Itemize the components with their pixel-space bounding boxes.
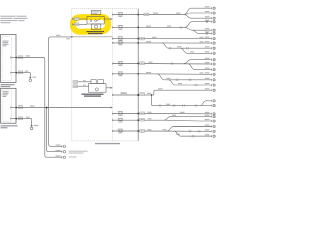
fuse F8 rating label [119, 114, 123, 117]
K1 contact circle 1 [90, 20, 92, 22]
junction fuse F8 at connector face [137, 113, 139, 115]
F10 label above 2 [163, 129, 167, 130]
drop x151.5 y95->105.6 [152, 95, 201, 106]
connector label on K1 upper stub [74, 18, 79, 21]
underhood fuse block dashed bottom edge [72, 140, 138, 142]
cascade drop to y85.0 [169, 80, 212, 85]
terminal label y8.2 [205, 6, 210, 7]
fuse F4 symbol [118, 42, 123, 43]
F3 wire label 2 [200, 37, 204, 38]
inline connector 2 on lower chain [173, 105, 175, 107]
K2 name line 1 [82, 94, 104, 95]
riser x153.8 y95->90.2 [154, 90, 212, 95]
K1 right pin arrow [110, 18, 112, 20]
F8 wire label [180, 112, 185, 113]
wire D label [26, 117, 30, 118]
connector label on K1 lower stub [74, 23, 79, 26]
K1 coil circle [94, 25, 97, 28]
inline connector on F2 wire [180, 26, 182, 28]
F2 wire label 2 [167, 26, 171, 27]
vertical V3 x46.6 [46, 108, 48, 150]
K2 feed wire 2 [78, 85, 89, 87]
U1 label line 1 [1, 84, 15, 85]
label above riser line y90.2 [158, 88, 163, 89]
pin into fuse block internal edge y107.5 [110, 107, 112, 109]
terminal T y105.6 [211, 104, 215, 106]
branch up to terminal y100.8 [200, 101, 211, 106]
fuse F1 name label [118, 11, 123, 14]
connector label on K2 output row [121, 92, 126, 95]
K2 sub-box B [98, 80, 104, 84]
pin dot into fuse block left edge y36.9 [71, 36, 73, 38]
F2 wire label [146, 26, 151, 27]
extension of y126.4 branch [174, 125, 212, 127]
terminal label y121.0 [205, 119, 210, 120]
U2 pin B stub [12, 118, 17, 120]
inline connector 2 on F10 [198, 130, 200, 132]
K1 top sub-box text 2 [92, 12, 97, 15]
connector label on F1 wire [144, 13, 149, 16]
terminal T y43.1 [211, 42, 215, 44]
y85 line label [178, 83, 182, 84]
F4 wire label [146, 41, 151, 42]
U2 pin A [10, 107, 12, 109]
fuse F3 symbol [118, 38, 123, 39]
fuse F6 symbol [118, 73, 123, 74]
fuse F1 left pin [112, 14, 114, 16]
inline connector on y136.2 branch [192, 135, 194, 137]
K1 contact circle 2 [95, 20, 97, 22]
K2 output pin arrow [110, 87, 112, 89]
fuse F2 symbol [118, 27, 123, 28]
connector label into K2 feed 2 [73, 85, 78, 88]
note text line 1a [1, 16, 16, 17]
terminal T y116.6 [211, 115, 215, 117]
module U1 inner dashed boundary [2, 37, 12, 81]
F5 wire label [149, 62, 153, 63]
F8 wire label 1 [148, 112, 152, 113]
terminal T y79.8 [211, 79, 215, 81]
terminal label y43.1 [205, 41, 210, 42]
wire F7 out y95 [138, 94, 154, 96]
ring terminal E1 [62, 145, 66, 147]
wire F3 out y38.6 [138, 38, 212, 40]
relay K1 top sub-box [91, 11, 101, 15]
F10 label below [176, 134, 180, 135]
inline connector circle on y33.4 branch [206, 33, 208, 35]
extension of y136.2 branch [181, 135, 212, 137]
U2 internal text line 4 [3, 95, 7, 98]
ring terminal E2 [62, 151, 66, 153]
note text line 2a [1, 18, 13, 19]
wire F10 out y131 [138, 130, 212, 132]
inline connector 1 on F10 [189, 130, 191, 132]
fuse F1 symbol [118, 14, 123, 15]
fuse F10 left pin [112, 130, 114, 132]
F10 label above 1 [148, 129, 152, 130]
terminal T y53.3 [211, 52, 215, 54]
fuse F5 rating label [119, 64, 123, 67]
terminal T y136.2 [211, 135, 215, 137]
terminal label y18.2 [205, 16, 210, 17]
F7 wire label after bus [147, 93, 151, 94]
fuse F4 row wire y42.9 [112, 42, 138, 44]
branch straight terminal y105.6 [200, 105, 211, 107]
F1 wire label 2 [176, 13, 181, 14]
branch to terminal y21.7 [185, 22, 212, 28]
wire C label 1 [30, 105, 35, 106]
underhood fuse block dashed left edge [71, 9, 73, 141]
fuse F4 left pin [112, 42, 114, 44]
U2 internal text line 3 [3, 93, 8, 96]
fuse F6 rating label [119, 74, 123, 77]
fuse F5 row wire y63.5 [112, 63, 138, 65]
K2 output wire [106, 87, 112, 89]
fuse F10 rating label [119, 131, 123, 134]
terminal label y136.2 [205, 134, 210, 135]
terminal T y38.6 [211, 37, 215, 39]
junction at U1 pin A [15, 57, 17, 59]
wire E corner at x48.6 y36.9 [49, 37, 72, 144]
fuse F8 row wire y113.5 [112, 113, 138, 115]
inline connector 1 on lower chain [159, 105, 161, 107]
E3 wire label [56, 155, 61, 156]
fuse F2 left pin [112, 27, 114, 29]
K2 coil circle [95, 88, 98, 91]
U1 internal text line 2 [3, 41, 9, 44]
fuse F10 name label [118, 128, 123, 131]
wire D horizontal y118.6 [16, 118, 31, 120]
ground G1 [29, 73, 32, 82]
cascade drop to y48.2 [162, 43, 212, 48]
inline connector on y79.8 line [176, 79, 178, 81]
U2 label line 1 [1, 125, 18, 126]
fuse F10 row wire y131.0 [112, 130, 138, 132]
K1 contact blade [97, 19, 101, 22]
terminal T y121.0 [211, 120, 215, 122]
terminal T y100.8 [211, 100, 215, 102]
junction on F7 wire [151, 94, 152, 95]
terminal T y69.6 [211, 68, 215, 70]
terminal label y38.6 [205, 37, 210, 38]
terminal T y33.4 [211, 32, 215, 34]
U2 label line 2 [1, 127, 8, 128]
K1 top sub-box text [92, 10, 99, 13]
ring terminal E3 [62, 156, 66, 158]
inline connector on F5 wire [171, 63, 173, 65]
junction fuse F4 at connector face [137, 42, 139, 44]
U1 label line 2 [1, 86, 11, 87]
wire C horizontal y107.5 [16, 107, 112, 109]
junction at U2 pin B [15, 118, 17, 120]
fuse F5 name label [118, 60, 123, 63]
U1 internal text line 1 [3, 40, 9, 43]
U2 internal text line 2 [3, 92, 9, 95]
wire F4 out y42.9 [138, 42, 212, 44]
fuse F4 rating label [119, 43, 123, 46]
K1 pin arrow lower [72, 24, 74, 26]
cascade drop to y53.3 [181, 48, 212, 53]
wire E label [56, 35, 61, 36]
E1 wire label [56, 145, 61, 146]
lower chain label [166, 104, 170, 105]
highlight marker loop around relay K1 [73, 17, 108, 32]
fuse F9 name label [118, 117, 123, 120]
junction at U1 pin B [15, 72, 17, 74]
U1 pin A [10, 57, 12, 59]
E2 destination text line 1 [69, 151, 88, 152]
inline connector 3 on lower chain [182, 105, 184, 107]
terminal label y113.8 [205, 112, 210, 113]
F6 wire label 2 [200, 72, 204, 73]
fuse F8 symbol [118, 113, 123, 114]
K2 feed wire 1 tiny label [83, 79, 86, 82]
fuse F6 name label [118, 71, 123, 74]
junction fuse F9 at connector face [137, 119, 139, 121]
junction fuse F5 at connector face [137, 63, 139, 65]
fuse F3 row wire y38.6 [112, 38, 138, 40]
junction fuse F1 at connector face [137, 14, 139, 16]
internal dashed partition below relay K1 [72, 35, 113, 37]
fuse block label text [95, 143, 120, 144]
terminal label y79.8 [205, 78, 210, 79]
terminal label y90.2 [205, 88, 210, 89]
branch to terminal T3 [184, 15, 212, 19]
F6 wire label [146, 72, 151, 73]
connector label C4 on wire D [18, 117, 23, 120]
K1 pin arrow upper [72, 18, 74, 20]
terminal label y64.0 [205, 62, 210, 63]
F9 straight run to terminal y121 [164, 119, 212, 122]
note text line 1b [17, 16, 27, 17]
junction fuse F7 at connector face [137, 94, 139, 96]
inline connector on y85 line [195, 84, 197, 86]
V3 curve to ring terminal E3 [45, 155, 63, 157]
note text line 3b [19, 20, 25, 21]
module U2 electronic brake control module (lower) outer box [1, 88, 16, 123]
U2 pin B [10, 118, 12, 120]
V2 curve to ring terminal E1 [49, 144, 63, 146]
terminal T y90.2 [211, 89, 215, 91]
U1 pin B [10, 72, 12, 74]
fuse F7 row wire y95.0 [112, 94, 138, 96]
terminal T y131.3 [211, 130, 215, 132]
terminal T y64.0 [211, 63, 215, 65]
branch to terminal y116.6 [164, 117, 212, 121]
terminal T y126.4 [211, 125, 215, 127]
branch to terminal T1 [184, 8, 212, 14]
relay K1 right stub [104, 18, 112, 20]
terminal label y59.7 [205, 58, 210, 59]
terminal T y74.3 [211, 73, 215, 75]
ground G1 label [33, 77, 37, 78]
relay K1 coil sub-box [91, 24, 101, 29]
junction at U2 pin A [15, 107, 17, 109]
ground G2 label [34, 125, 39, 126]
connector label C3 on wire C [18, 106, 23, 109]
terminal label y69.6 [205, 68, 210, 69]
fuse F2 name label [118, 24, 123, 27]
terminal label y53.3 [205, 51, 210, 52]
wire F1 out y14.5 [138, 14, 184, 16]
junction wire C / V3 [46, 107, 48, 109]
note text line 3a [1, 20, 18, 21]
terminal label y48.2 [205, 46, 210, 47]
underhood fuse block right edge (connector face) [137, 9, 139, 141]
U2 internal text line 1 [3, 90, 9, 93]
cascade branch to terminal y33.4 [193, 30, 212, 33]
fuse F9 symbol [118, 120, 123, 121]
fuse F9 rating label [119, 121, 123, 124]
terminal T y48.2 [211, 47, 215, 49]
junction fuse F3 at connector face [137, 38, 139, 40]
fuse F5 symbol [118, 63, 123, 64]
wire F2 out y27.4 [138, 26, 186, 28]
fuse F6 left pin [112, 73, 114, 75]
underhood fuse block dashed top edge [72, 8, 138, 10]
wire B label [25, 71, 29, 72]
E2 destination text line 2 [69, 153, 84, 154]
terminal label y116.6 [205, 115, 210, 116]
relay K1 pin stub left upper [73, 18, 87, 20]
fuse F8 name label [118, 110, 123, 113]
connector label C2 on wire B [18, 71, 23, 74]
fuse F3 name label [118, 35, 123, 38]
relay K1 pin stub left lower [73, 23, 87, 25]
terminal label y30.2 [205, 28, 210, 29]
ground G2 [30, 119, 33, 130]
U1 pin B stub [12, 72, 17, 74]
y79.8 line label [167, 78, 171, 79]
wire B horizontal y72.6 [16, 72, 30, 74]
branch to terminal y69.6 [188, 64, 212, 70]
branch to terminal y136.2 [174, 131, 212, 136]
fuse F2 row wire y27.4 [112, 26, 138, 28]
terminal label y85.0 [205, 83, 210, 84]
fuse F7 left pin [112, 94, 114, 96]
V1 curve to ring terminal E2 [47, 150, 63, 152]
F9 wire label [148, 118, 152, 119]
wire F6 out y73.8 [138, 73, 212, 76]
U1 internal text line 4 [3, 44, 7, 47]
E3 destination text line [69, 156, 77, 157]
note text line 4 [1, 22, 11, 23]
relay K2 body [89, 84, 107, 93]
F4 wire label 2 [200, 41, 204, 42]
junction fuse F2 at connector face [137, 27, 139, 29]
inline connector 4 on lower chain [195, 105, 197, 107]
pin label y36.9 [66, 38, 70, 39]
fuse F9 left pin [112, 119, 114, 121]
connector label after bus on F7 [140, 93, 145, 96]
terminal T y85.0 [211, 84, 215, 86]
junction fuse F6 at connector face [137, 73, 139, 75]
branch to terminal y126.4 [167, 126, 212, 131]
branch to terminal y30.2 [185, 27, 212, 30]
fuse F2 rating label [119, 28, 123, 31]
F3 wire label [152, 37, 157, 38]
terminal label y33.4 [205, 31, 210, 32]
fuse F4 name label [118, 40, 123, 43]
connector label on F8 wire [140, 112, 145, 115]
terminal T y21.7 [211, 21, 215, 23]
inline connector 2 on y48.2 line [186, 47, 188, 49]
U2 pin A stub [12, 107, 17, 109]
branch to terminal T2 [184, 13, 212, 15]
U1 internal text line 3 [3, 43, 9, 46]
y48.2 line label [177, 46, 182, 47]
K2 feed wire 1 [78, 81, 91, 83]
wire F8 out y113.5 [138, 113, 212, 115]
terminal T y18.2 [211, 17, 215, 19]
wire F9 out y120.2 [138, 119, 164, 121]
relay K1 body [87, 17, 104, 25]
F1 wire color label [153, 13, 158, 14]
fuse F1 rating label [119, 15, 123, 18]
terminal label y74.3 [205, 72, 210, 73]
K1 name line 1 [87, 31, 105, 32]
terminal label y126.4 [205, 124, 210, 125]
K2 feed wire 2 tiny label [83, 84, 86, 87]
junction fuse F10 at connector face [137, 130, 139, 132]
junction F7 at connector face [137, 94, 139, 96]
connector label on F9 wire [140, 118, 145, 121]
U1 pin A stub [12, 57, 17, 59]
wire F5 out y63.5 [138, 63, 212, 66]
connector label C1 on wire A [18, 56, 23, 59]
fuse F3 left pin [112, 38, 114, 40]
cascade drop to y79.8 [158, 74, 212, 80]
inline connector on y48.2 line [169, 47, 171, 49]
terminal T y59.7 [211, 59, 215, 61]
terminal T y8.2 [211, 7, 215, 9]
terminal label y13.0 [205, 11, 210, 12]
interior boundary line y36.9 [72, 36, 113, 38]
inline connector 2 on y79.8 line [189, 79, 191, 81]
terminal T y30.2 [211, 29, 215, 31]
module U1 electronic brake control module (upper) outer box [1, 34, 16, 82]
y53.3 line label [190, 51, 194, 52]
inline connector circle on y21.7 branch [206, 21, 208, 23]
connector label on F10 wire [140, 130, 145, 133]
fuse F6 row wire y73.8 [112, 73, 138, 75]
note text line 2b [14, 18, 28, 19]
terminal label y131.3 [205, 129, 210, 130]
branch label y116.6 [172, 115, 176, 116]
terminal T y113.8 [211, 113, 215, 115]
terminal label y21.7 [205, 20, 210, 21]
module U2 inner dashed boundary [2, 90, 12, 121]
fuse F3 rating label [119, 39, 123, 42]
internal dashed vertical bus edge [111, 9, 113, 141]
fuse F1 row wire y14.5 [112, 14, 138, 16]
terminal T y13.0 [211, 12, 215, 14]
K2 name line 2 [84, 96, 101, 97]
fuse F10 symbol [118, 130, 123, 131]
fuse F8 left pin [112, 113, 114, 115]
connector label on F5 wire [140, 62, 145, 65]
branch to terminal y59.7 [184, 60, 212, 64]
K2 sub-box A [91, 80, 96, 84]
E2 wire label [56, 150, 61, 151]
K1 name line 2 [88, 33, 103, 34]
wire A gauge/color label [26, 55, 31, 56]
wire A horizontal run y57.5 with corner down at x44.8 [16, 58, 45, 156]
fuse F5 left pin [112, 63, 114, 65]
connector label into K2 feed 1 [73, 81, 78, 84]
connector label on F3 wire [140, 37, 145, 40]
fuse F9 row wire y120.2 [112, 119, 138, 121]
